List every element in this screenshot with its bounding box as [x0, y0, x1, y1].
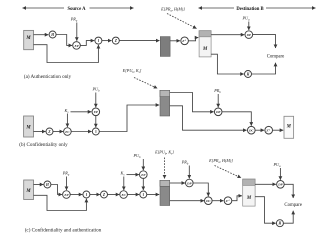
decompress Zinv (b) — [265, 126, 273, 134]
wire PRb to DP (c) — [188, 166, 190, 179]
svg-text:M: M — [246, 196, 252, 201]
dashed pointer to packet (c) — [164, 158, 166, 179]
svg-text:H: H — [50, 33, 54, 37]
concat node 2 (c) — [140, 191, 147, 198]
wire Ks to EP (b) — [71, 111, 92, 113]
wire EP to concat (b) — [95, 116, 97, 128]
svg-text:E[PRa, H(M)]: E[PRa, H(M)] — [208, 158, 233, 164]
svg-text:E[PUb, Ks]: E[PUb, Ks] — [122, 68, 142, 74]
hash H (c) — [44, 181, 51, 188]
wire signature to DP2 (c) — [255, 183, 276, 185]
svg-text:M: M — [286, 125, 292, 130]
dashed pointer to received block (c) — [215, 166, 242, 178]
hash H (a dest) — [245, 71, 252, 78]
wire M to H (c) — [34, 184, 44, 186]
svg-text:PRb: PRb — [181, 160, 189, 166]
concat node (b) — [92, 128, 99, 135]
svg-text:‖: ‖ — [143, 193, 144, 197]
wire Zinv to received block (a) — [189, 38, 199, 41]
svg-text:Source A: Source A — [67, 7, 86, 12]
wire H to compare (a dest) — [252, 63, 276, 74]
wire PUb to EP2 (c) — [142, 159, 144, 170]
svg-text:Ks: Ks — [64, 108, 69, 114]
wire PUa to DP (a) — [248, 22, 250, 31]
compress Z (c) — [101, 191, 108, 198]
wire PUa to DP2 (c) — [279, 168, 281, 180]
svg-text:PRa: PRa — [70, 17, 78, 23]
received block (c): signature + M — [243, 179, 255, 206]
wire DC to Zinv (c) — [212, 200, 223, 202]
wire EP to concat1 (c) — [70, 194, 82, 196]
wire DP to DC (b) — [222, 112, 251, 126]
wire Zinv to received block (c) — [232, 196, 242, 201]
svg-text:M: M — [202, 47, 208, 52]
svg-text:EC: EC — [64, 130, 70, 134]
wire Z to EC (c) — [108, 194, 120, 196]
svg-text:(c) Confidentiality and authen: (c) Confidentiality and authentication — [25, 227, 102, 234]
svg-text:M: M — [25, 36, 31, 41]
dashed pointer to packet (a) — [167, 14, 197, 29]
svg-text:PUb: PUb — [133, 153, 142, 159]
svg-text:M: M — [25, 126, 31, 131]
wire packet data part to DC (c) — [170, 200, 204, 202]
wire M to Z (b) — [34, 131, 46, 133]
wire Ks to EC (b) — [66, 114, 68, 128]
wire M to H (a dest) — [211, 54, 244, 74]
wire PRb to DP (b) — [217, 94, 219, 107]
packet bar (a) — [160, 37, 170, 57]
block M source (a) — [24, 30, 34, 49]
encrypt EP (a) — [73, 42, 81, 50]
hash H (c dest) — [276, 220, 283, 227]
svg-text:PUa: PUa — [242, 16, 251, 22]
svg-text:PUb: PUb — [92, 87, 101, 93]
wire Z to EC (b) — [53, 131, 63, 133]
wire packet data part to DC (b) — [170, 106, 247, 130]
wire M bypass to concat1 (c) — [34, 195, 87, 210]
wire DP to compare (a) — [253, 35, 276, 48]
packet bar (c) — [160, 180, 170, 205]
block M dest (b) — [284, 116, 294, 138]
svg-text:EP: EP — [73, 44, 78, 48]
encrypt EP (b) — [92, 108, 100, 116]
wire packet key part to DP (c) — [170, 182, 185, 184]
wire PRa to EP (c) — [66, 177, 68, 191]
block M source (b) — [24, 116, 34, 137]
wire signature to DP (a) — [211, 34, 244, 36]
svg-text:Compare: Compare — [267, 55, 285, 60]
svg-text:DC: DC — [205, 199, 211, 203]
svg-text:(a) Authentication only: (a) Authentication only — [24, 73, 72, 80]
svg-text:Ks: Ks — [120, 171, 125, 177]
concat node (a) — [95, 37, 102, 44]
wire Ks to EP2 (c) — [127, 174, 140, 176]
wire Ks to EC (c) — [123, 177, 125, 191]
wire H to EP (a) — [56, 35, 72, 46]
dashed pointer to packet (b) — [134, 78, 157, 89]
received block (a): signature + M — [199, 31, 211, 57]
compress Z (a) — [112, 37, 119, 44]
svg-text:‖: ‖ — [86, 193, 87, 197]
compress Z (b) — [46, 128, 53, 135]
svg-text:DP: DP — [246, 33, 251, 37]
wire concat to Z (a) — [102, 40, 112, 42]
concat node 1 (c) — [83, 191, 90, 198]
wire packet to Zinv (a) — [170, 40, 180, 42]
svg-text:EC: EC — [120, 193, 126, 197]
wire EP to concat (a) — [80, 41, 94, 46]
decrypt DC (b) — [248, 126, 256, 134]
svg-text:EP: EP — [140, 173, 145, 177]
wire PRa to EP (a) — [76, 23, 78, 41]
decrypt DP (b) — [214, 108, 222, 116]
decrypt DP (a) — [245, 31, 253, 39]
encrypt EC (b) — [64, 128, 72, 136]
wire Z to packet (a) — [119, 40, 159, 42]
wire M to H (a) — [34, 34, 49, 36]
svg-text:Compare: Compare — [284, 203, 302, 208]
svg-text:E[PUb, Ks]: E[PUb, Ks] — [154, 150, 174, 156]
header Source A — [23, 7, 134, 9]
decrypt DP2 (c) — [277, 181, 285, 189]
encrypt EC (c) — [120, 191, 128, 199]
svg-text:‖: ‖ — [95, 130, 96, 134]
svg-text:EP: EP — [93, 110, 98, 114]
wire M to H (c dest) — [255, 197, 276, 224]
svg-text:DP: DP — [215, 110, 220, 114]
wire H to EP (c) — [51, 185, 62, 195]
wire DC to Zinv (b) — [255, 129, 264, 131]
svg-text:‖: ‖ — [98, 39, 99, 43]
wire H to compare (c dest) — [284, 211, 294, 223]
wire DP to DC (c) — [193, 183, 208, 196]
wire concat2 to packet (c) — [147, 194, 159, 196]
wire EC to concat2 (c) — [128, 194, 140, 196]
wire M bypass to concat (a) — [34, 45, 99, 63]
svg-text:DC: DC — [248, 129, 254, 133]
svg-text:PUa: PUa — [273, 162, 282, 168]
wire EP2 to concat2 (c) — [142, 178, 144, 190]
block M source (c) — [24, 180, 34, 200]
wire PUb to EP (b) — [95, 93, 97, 108]
decrypt DC (c) — [205, 197, 213, 205]
decompress Zinv (a) — [181, 37, 189, 45]
packet bar (b) — [160, 90, 170, 116]
decrypt DP (c) — [186, 179, 194, 187]
wire concat to packet (b) — [99, 105, 159, 132]
svg-text:DP: DP — [186, 181, 191, 185]
wire EC to concat (b) — [71, 131, 91, 133]
encrypt EP (c) — [63, 191, 71, 199]
svg-text:(b) Confidentiality only: (b) Confidentiality only — [19, 141, 68, 148]
svg-text:Destination B: Destination B — [236, 7, 263, 12]
svg-text:H: H — [278, 222, 282, 226]
svg-text:DP: DP — [277, 183, 282, 187]
hash H (a) — [49, 31, 56, 38]
wire Zinv to M (b) — [273, 129, 284, 131]
svg-text:EP: EP — [63, 193, 68, 197]
svg-text:PRb: PRb — [213, 88, 221, 94]
svg-text:M: M — [25, 189, 31, 194]
encrypt EP2 (c) — [140, 171, 148, 179]
svg-text:H: H — [246, 72, 250, 76]
header Destination B — [199, 7, 316, 9]
svg-text:E[PRa, H(M)]: E[PRa, H(M)] — [160, 7, 185, 13]
svg-text:H: H — [45, 183, 49, 187]
decompress Zinv (c) — [224, 197, 232, 205]
svg-text:PRa: PRa — [62, 171, 70, 177]
wire concat1 to Z (c) — [90, 194, 100, 196]
wire packet key part to DP (b) — [170, 93, 214, 112]
wire DP2 to compare (c) — [284, 184, 293, 198]
